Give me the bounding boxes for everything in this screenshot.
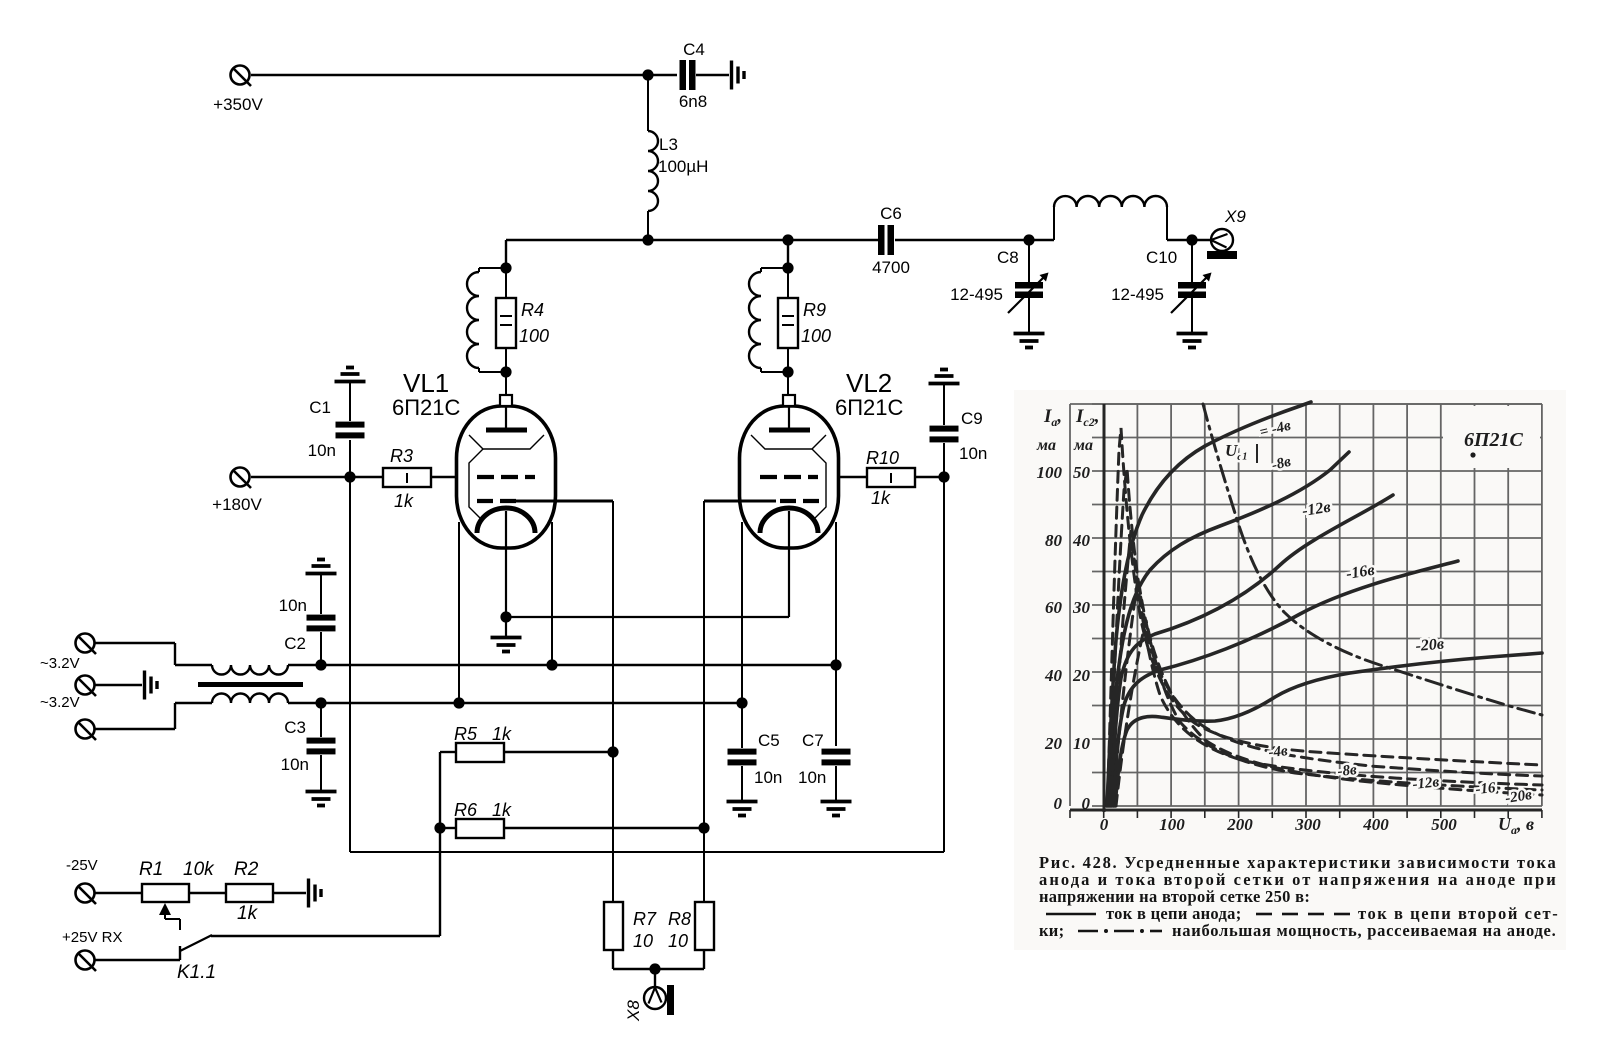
svg-text:10: 10: [633, 931, 653, 951]
wire cathode node to ground: [505, 617, 507, 636]
svg-text:6П21С: 6П21С: [392, 395, 461, 420]
pi-network inductor: [1054, 196, 1167, 240]
svg-text:K1.1: K1.1: [177, 962, 216, 983]
svg-text:VL1: VL1: [403, 368, 449, 398]
wire R3 to VL1 grid: [431, 476, 457, 478]
terminal heater CT (grounded): [76, 676, 97, 697]
svg-text:6n8: 6n8: [679, 92, 707, 111]
terminal ~3.2V lower: [40, 694, 96, 740]
svg-text:-4в: -4в: [1268, 743, 1289, 761]
wire +180V to R3: [251, 476, 383, 478]
svg-text:100: 100: [519, 326, 549, 346]
junction C2 node: [315, 659, 326, 670]
resistor R4 100: [496, 268, 549, 372]
svg-text:6П21С: 6П21С: [1464, 429, 1524, 451]
capacitor C3 10n: [281, 703, 336, 790]
wire R10 to C9 node: [915, 476, 944, 478]
ground below C3: [306, 792, 337, 806]
ground below C5: [727, 802, 758, 816]
wire +350V to C4 node: [251, 74, 677, 76]
wire lower terminal to winding 2: [95, 703, 212, 729]
wire upper terminal to winding 1: [95, 643, 212, 665]
svg-text:-12в: -12в: [1412, 774, 1441, 793]
wire inductor to C10 node: [1167, 239, 1211, 241]
wire VL1 anode drop: [505, 240, 507, 268]
dashed screen-current curves: [1107, 428, 1542, 806]
svg-text:0: 0: [1100, 815, 1109, 834]
wire R2 to ground: [273, 892, 306, 894]
svg-text:10n: 10n: [754, 768, 782, 787]
resistor R10 1k: [866, 448, 915, 508]
svg-text:1k: 1k: [394, 491, 414, 511]
svg-text:300: 300: [1294, 815, 1321, 834]
wire R7 bottom to X8 node: [613, 950, 655, 969]
svg-text:R7: R7: [633, 909, 657, 929]
svg-text:60: 60: [1045, 598, 1063, 617]
junction VL2 left heater / C5 node: [736, 697, 747, 708]
svg-text:30: 30: [1072, 598, 1091, 617]
terminal -25V: [66, 857, 98, 904]
wire VL2 heater pin left: [741, 522, 743, 748]
wire C4 to ground: [696, 74, 729, 76]
wire to VL2 top pin: [787, 372, 789, 396]
transformer winding 1: [212, 665, 288, 675]
variable capacitor C8 12-495: [950, 240, 1048, 348]
wire anode bus (VL1 to C6): [506, 239, 878, 241]
resistor R9 100: [778, 268, 831, 372]
junction C8 node: [1023, 234, 1034, 245]
svg-text:10n: 10n: [281, 755, 309, 774]
svg-text:C4: C4: [683, 40, 705, 59]
wire VL2 heater pin right: [835, 522, 837, 746]
wire -25V to R1: [95, 892, 142, 894]
inductor L3 100uH: [648, 75, 708, 240]
wire +180V feed bus (C1 node down, across, up to C9 node): [350, 477, 944, 852]
svg-text:-20в: -20в: [1415, 636, 1445, 655]
svg-text:12-495: 12-495: [1111, 285, 1164, 304]
wire R8 bottom to X8 node: [655, 950, 704, 969]
svg-text:R5: R5: [454, 724, 478, 744]
svg-text:R2: R2: [234, 859, 259, 880]
junction L3 to anode bus: [642, 234, 653, 245]
R1 wiper arrow: [159, 903, 180, 930]
svg-text:C10: C10: [1146, 248, 1177, 267]
capacitor C9 10n: [930, 385, 988, 477]
inset scanned characteristic curves figure: [1014, 390, 1566, 950]
svg-text:VL2: VL2: [846, 368, 892, 398]
terminal +180V: [212, 468, 262, 515]
svg-text:20: 20: [1044, 734, 1063, 753]
svg-text:-25V: -25V: [66, 857, 98, 874]
ground above C1: [335, 368, 366, 382]
resistor R6 1k: [454, 800, 512, 838]
svg-text:0: 0: [1054, 794, 1063, 813]
wire VL1 screen lead down: [612, 501, 614, 902]
ground cathode: [491, 638, 522, 652]
svg-text:~3.2V: ~3.2V: [40, 655, 80, 672]
resistor R7 10: [604, 902, 657, 951]
wire to VL1 top pin: [505, 372, 507, 396]
svg-text:10: 10: [668, 931, 688, 951]
svg-text:100: 100: [1159, 815, 1185, 834]
svg-text:R1: R1: [139, 859, 163, 880]
junction C10 node: [1186, 234, 1197, 245]
transformer core: [198, 682, 303, 687]
svg-text:40: 40: [1044, 666, 1063, 685]
junction VL1 right heater on bus: [546, 659, 557, 670]
wire bias tie down to K1.1: [211, 828, 440, 936]
svg-text:6П21С: 6П21С: [835, 395, 904, 420]
wire heater bus bottom (to VL2 left pin): [321, 702, 742, 704]
svg-text:C1: C1: [309, 398, 331, 417]
junction VL1 left heater on bus: [453, 697, 464, 708]
svg-text:R10: R10: [866, 448, 899, 468]
svg-text:Ua, в: Ua, в: [1498, 814, 1534, 837]
capacitor C5 10n: [728, 731, 783, 800]
svg-text:R9: R9: [803, 300, 826, 320]
connector X8: [624, 969, 674, 1022]
wire VL2 anode drop: [787, 240, 789, 268]
svg-text:10n: 10n: [798, 768, 826, 787]
svg-text:C3: C3: [284, 718, 306, 737]
svg-text:наибольшая мощность, рассеивае: наибольшая мощность, рассеиваемая на ано…: [1172, 921, 1556, 940]
solid anode-current curves: [1107, 402, 1311, 806]
svg-text:10n: 10n: [279, 596, 307, 615]
wire VL2 cathode to common ground: [506, 616, 789, 618]
vacuum tube VL1 6P21S: [392, 368, 613, 617]
svg-text:1k: 1k: [492, 800, 512, 820]
ground heater CT: [145, 671, 158, 700]
capacitor C4 6n8: [679, 40, 707, 111]
wire heater bus top (to VL2 right pin): [321, 664, 836, 666]
junction R6/VL2 screen: [698, 822, 709, 833]
wire R6 right to VL2 screen line: [504, 827, 704, 829]
capacitor C1 10n: [308, 383, 365, 477]
svg-text:20: 20: [1072, 666, 1091, 685]
wire C6 to C8 node: [895, 239, 1054, 241]
wire VL1 heater pin left: [458, 522, 460, 703]
svg-text:500: 500: [1431, 815, 1457, 834]
svg-text:+350V: +350V: [213, 95, 263, 114]
anode choke coil of VL2 (parallel with R9): [749, 268, 788, 372]
capacitor C6 4700: [872, 204, 910, 277]
node VL2 anode bottom junction: [782, 366, 793, 377]
svg-text:1k: 1k: [237, 903, 259, 924]
junction X8 node: [649, 963, 660, 974]
junction VL2 anode branch: [782, 234, 793, 245]
ground right of R2: [309, 879, 322, 908]
svg-text:12-495: 12-495: [950, 285, 1003, 304]
dash-dot max power curve: [1203, 404, 1542, 715]
wire +25V RX to switch: [95, 946, 180, 960]
svg-text:100µH: 100µH: [658, 157, 708, 176]
svg-text:40: 40: [1072, 531, 1091, 550]
svg-text:C9: C9: [961, 409, 983, 428]
transformer winding 2: [212, 694, 288, 704]
svg-text:10n: 10n: [959, 444, 987, 463]
terminal ~3.2V upper: [40, 634, 96, 673]
vacuum tube VL2 6P21S: [704, 368, 904, 617]
relay switch K1.1: [177, 935, 216, 983]
svg-text:C5: C5: [758, 731, 780, 750]
junction cathode ground node: [500, 611, 511, 622]
svg-text:100: 100: [1037, 463, 1063, 482]
svg-text:1k: 1k: [871, 488, 891, 508]
inset figure caption: [1039, 853, 1558, 940]
svg-text:R8: R8: [668, 909, 691, 929]
resistor R5 1k: [454, 724, 512, 762]
svg-text:0: 0: [1082, 794, 1091, 813]
svg-text:X8: X8: [624, 1000, 643, 1022]
svg-text:80: 80: [1045, 531, 1063, 550]
junction C4/L3 node: [642, 69, 653, 80]
svg-text:C7: C7: [802, 731, 824, 750]
svg-text:R4: R4: [521, 300, 544, 320]
terminal +350V: [213, 66, 263, 115]
wire CT to ground: [95, 684, 142, 686]
junction R5/VL1 screen: [607, 746, 618, 757]
svg-text:ма: ма: [1073, 437, 1093, 454]
svg-text:1k: 1k: [492, 724, 512, 744]
resistor R2 1k: [226, 859, 273, 924]
svg-text:400: 400: [1362, 815, 1389, 834]
svg-text:200: 200: [1226, 815, 1253, 834]
svg-text:X9: X9: [1224, 207, 1246, 226]
svg-text:R3: R3: [390, 446, 413, 466]
capacitor C2 10n: [279, 575, 336, 665]
svg-text:+180V: +180V: [212, 495, 262, 514]
node VL1 anode bottom junction: [500, 366, 511, 377]
wire VL2 screen lead down: [703, 501, 705, 902]
svg-text:-16: -16: [1475, 780, 1497, 798]
wire R5 right to VL1 screen line: [504, 751, 613, 753]
terminal +25V RX: [62, 929, 122, 971]
potentiometer R1 10k: [139, 859, 215, 902]
ground above C9: [929, 370, 960, 384]
wire R5 left to junction: [440, 752, 456, 828]
anode choke coil of VL1 (parallel with R4): [467, 268, 506, 372]
wire R6 left stub: [440, 827, 456, 829]
svg-text:10: 10: [1073, 734, 1091, 753]
svg-text:100: 100: [801, 326, 831, 346]
svg-text:+25V RX: +25V RX: [62, 929, 122, 946]
wire VL1 heater pin right: [551, 522, 553, 665]
svg-text:~3.2V: ~3.2V: [40, 694, 80, 711]
svg-text:R6: R6: [454, 800, 478, 820]
junction R5/R6 left tie: [434, 822, 445, 833]
wire winding1 to heater bus top: [288, 664, 321, 666]
capacitor C7 10n: [798, 731, 851, 800]
resistor R8 10: [668, 902, 714, 951]
node VL2 anode top junction: [782, 262, 793, 273]
svg-text:ма: ма: [1036, 437, 1056, 454]
connector X9: [1207, 207, 1246, 259]
svg-text:4700: 4700: [872, 258, 910, 277]
svg-text:L3: L3: [659, 135, 678, 154]
ground above C2: [306, 560, 337, 574]
node VL1 anode top junction: [500, 262, 511, 273]
svg-text:10k: 10k: [183, 859, 215, 880]
svg-text:C8: C8: [997, 248, 1019, 267]
svg-text:50: 50: [1073, 463, 1091, 482]
junction C1 node: [344, 471, 355, 482]
svg-text:-8в: -8в: [1337, 762, 1358, 780]
wire R1 to R2: [189, 892, 226, 894]
svg-text:C2: C2: [284, 634, 306, 653]
ground below C7: [821, 802, 852, 816]
svg-text:10n: 10n: [308, 441, 336, 460]
ground right of C4: [732, 61, 745, 90]
wire VL2 grid to R10: [839, 476, 867, 478]
svg-text:Uс₁: Uс₁: [1225, 441, 1248, 463]
junction VL2 right heater on bus: [830, 659, 841, 670]
svg-text:ки;: ки;: [1039, 921, 1064, 940]
variable capacitor C10 12-495: [1111, 240, 1211, 348]
junction C9 node: [938, 471, 949, 482]
resistor R3 1k: [383, 446, 431, 511]
junction C3 node: [315, 697, 326, 708]
svg-text:C6: C6: [880, 204, 902, 223]
wire winding2 to heater bus bottom: [288, 702, 321, 704]
